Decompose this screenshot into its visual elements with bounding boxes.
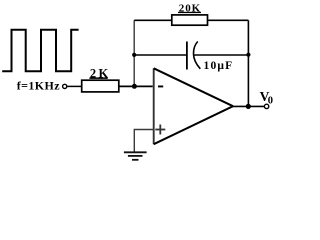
svg-text:f=1KHz: f=1KHz <box>17 78 61 92</box>
svg-text:0: 0 <box>268 95 273 106</box>
svg-text:10μF: 10μF <box>204 60 234 72</box>
